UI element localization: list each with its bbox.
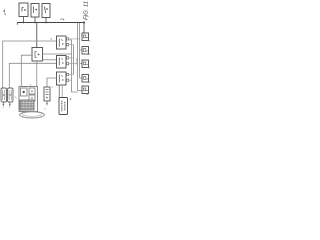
arrow label [45,108,47,111]
relay box R4 [82,75,90,84]
wire R2 left [80,49,83,51]
wire bus dot down to R1 [83,23,85,34]
machine label stub [30,84,32,87]
pin stubs B [69,58,78,64]
wire stub S3 to bus [45,18,47,23]
right riser bus 3 [79,23,81,78]
battery B2 [8,88,14,107]
right riser bus 1 [73,45,75,75]
wire W1 battery B1 to box A input [3,41,57,88]
power box rotated text [59,98,68,115]
battery labels [3,107,11,109]
bus junction dot [83,21,85,23]
hatched drum [20,100,34,110]
terminal strip label [52,87,54,88]
wires box C down to power box [58,85,60,98]
wire bus drop to box M [36,23,38,48]
wire M left output down to machine [21,55,32,86]
stub junction dots [23,22,25,24]
wire stub S2 to bus [34,17,36,23]
node 100 leader squiggle top-left [4,10,6,15]
wire M lower right output to box B [43,59,57,61]
svg-text:FIG. 11: FIG. 11 [84,1,90,20]
terminal strip box [44,87,50,101]
wire R4 left [80,77,83,79]
label 17 leader [15,97,17,99]
relay box R1 [82,33,90,42]
middle box M [32,48,43,62]
bus wire horizontal [17,22,84,24]
driver box C [57,72,69,85]
bus left end tick [16,23,18,25]
bus end label squiggle [86,15,89,18]
driver box B [57,56,69,69]
wire C pin corner [72,54,78,92]
relay box R3 [82,60,90,69]
label mark on W1 [50,39,52,41]
platform ellipse [20,112,45,118]
wire R3 left [80,63,83,65]
battery B1 [1,88,7,107]
wire terminal strip to box C [47,78,57,87]
motor box with dot [21,88,28,96]
sensor box S2 [31,4,39,18]
right riser bus 2 [78,23,83,91]
terminal strip bottom arrow [46,101,48,104]
driver box A [57,36,69,49]
wire stub S1 to bus [23,17,25,23]
riser label rotated [76,59,78,65]
machine outer box [19,87,38,112]
power box label plus [70,98,72,100]
wire W2 battery B2 to box B input [9,63,56,87]
sensor box S1 [19,3,28,17]
relay box R2 [82,47,90,56]
relay box R5 [82,86,89,95]
bus label leader [61,19,65,21]
wire M right output to riser [43,53,72,55]
gear box D2 [29,88,35,94]
wire M bottom output down to machine [36,61,38,86]
pin stubs C [69,74,74,80]
riser wire to box A pin [69,40,71,54]
gear box D3 [29,95,35,101]
pin stubs A [69,39,80,45]
sensor box S3 [42,4,50,18]
